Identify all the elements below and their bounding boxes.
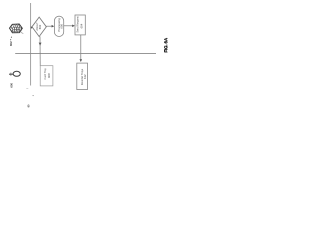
process box 604 (top) — [75, 15, 85, 35]
decision diamond 602 — [32, 17, 46, 36]
hexagon token (hatched) — [10, 24, 24, 34]
svg-text:612: 612 — [83, 74, 87, 79]
connector diamond down to box 612 — [39, 36, 42, 65]
person icon — [9, 71, 20, 76]
arrow diamond to stadium — [46, 25, 54, 28]
stadium 606 — [54, 16, 63, 36]
arrow lifeline to diamond — [31, 26, 33, 28]
horizontal bus line — [15, 53, 156, 55]
svg-text:FIG. 6A: FIG. 6A — [163, 37, 169, 53]
FIG. 6A caption (rotated) — [163, 37, 169, 53]
dotted lifeline continuation — [26, 89, 33, 108]
svg-text:602: 602 — [9, 41, 13, 46]
svg-text:604: 604 — [80, 23, 84, 28]
lifeline (vertical) — [30, 3, 32, 86]
svg-text:600: 600 — [9, 82, 13, 87]
connector top rect down to box 608 — [80, 35, 83, 62]
svg-text:606: 606 — [59, 23, 63, 28]
dashed leader under hexagon — [11, 37, 12, 41]
box 614 (bottom right) — [77, 63, 88, 89]
label 600 (rotated) — [9, 82, 13, 87]
box 612 (bottom left) — [40, 66, 53, 86]
arrow stadium to rect — [64, 25, 75, 28]
label 610 (rotated) — [9, 41, 13, 46]
svg-text:608: 608 — [47, 73, 51, 78]
svg-text:602: 602 — [38, 24, 42, 29]
